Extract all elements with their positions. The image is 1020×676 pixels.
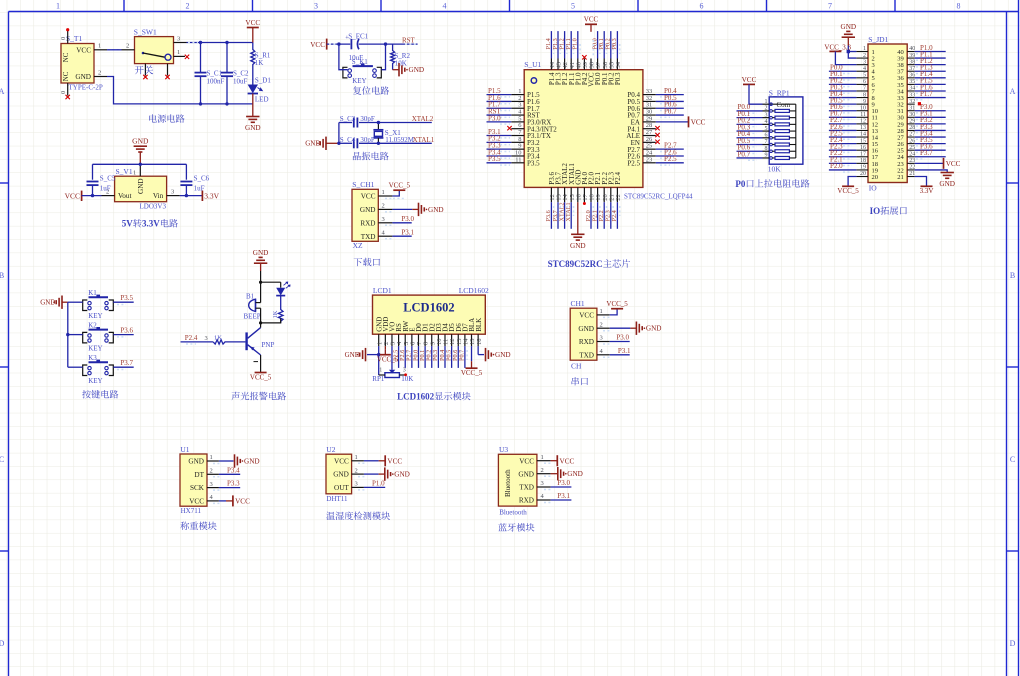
wire U2.2 to GND <box>364 473 379 475</box>
svg-text:29: 29 <box>909 119 915 125</box>
svg-text:1K: 1K <box>214 334 222 341</box>
S_JD1 left pin 4 <box>856 70 868 72</box>
svg-text:GND: GND <box>495 351 511 359</box>
svg-text:GND: GND <box>345 351 360 359</box>
svg-text:K2: K2 <box>88 322 97 330</box>
wire LCD BLA to VCC_5 <box>471 346 473 361</box>
svg-text:Com: Com <box>777 101 791 109</box>
svg-text:27: 27 <box>909 132 915 138</box>
connector S_CH1 XZ <box>352 189 378 241</box>
svg-text:3.3V: 3.3V <box>142 219 160 229</box>
GND power port (dht11) <box>384 467 386 480</box>
svg-text:S_JD1: S_JD1 <box>868 35 888 44</box>
svg-text:P3.5: P3.5 <box>120 294 133 302</box>
svg-text:LCD1602: LCD1602 <box>459 286 489 295</box>
svg-text:P2.4: P2.4 <box>611 210 618 221</box>
svg-text:17: 17 <box>860 151 866 157</box>
S_SW1 pin 1 unconnected <box>174 55 186 57</box>
svg-text:B: B <box>1010 271 1015 280</box>
svg-text:38: 38 <box>909 59 915 65</box>
svg-text:12: 12 <box>860 119 866 125</box>
svg-text:GND: GND <box>40 299 55 307</box>
svg-text:STC89C52RC: STC89C52RC <box>548 259 603 269</box>
S_CH1 pin 4 <box>378 235 392 237</box>
svg-text:VCC: VCC <box>189 498 204 506</box>
S_JD1 right pin 27 <box>907 136 915 138</box>
wire LCD VO to wiper <box>391 346 393 370</box>
svg-text:30pF: 30pF <box>360 115 375 123</box>
svg-text:1: 1 <box>765 99 768 105</box>
svg-text:VCC: VCC <box>691 118 706 126</box>
wire U3.2 to GND <box>551 473 558 475</box>
LED (alarm) <box>280 282 282 288</box>
svg-text:3: 3 <box>765 112 768 118</box>
svg-text:19: 19 <box>860 165 866 171</box>
wire K2 to P3.6 <box>113 334 133 336</box>
wire CH1.4 P3.1 <box>610 354 630 356</box>
junction crystal top <box>377 121 380 124</box>
keys ground bus <box>67 302 69 367</box>
svg-text:P0: P0 <box>735 179 745 189</box>
title 电源电路 <box>149 114 157 122</box>
resistor 1K (led) <box>278 296 283 323</box>
svg-text:TXD: TXD <box>579 351 594 359</box>
wire GND to node T <box>260 263 262 271</box>
svg-text:GND: GND <box>245 124 261 132</box>
title 温湿度检测模块 <box>326 512 335 520</box>
wire S_CH1.3 P3.0 <box>392 222 411 224</box>
svg-text:34: 34 <box>615 61 622 68</box>
S_JD1 left pin 8 <box>856 97 868 99</box>
S_U1 bottom pin 21 P2.3 <box>610 187 612 202</box>
svg-text:P3.1: P3.1 <box>557 492 570 500</box>
S_RP1 resistor element 6 <box>772 144 775 146</box>
wire LCD pin 12 P0.5 <box>451 346 453 368</box>
svg-text:VCC: VCC <box>334 457 349 465</box>
svg-text:21: 21 <box>909 171 915 177</box>
junction crystal bottom <box>377 142 380 145</box>
svg-text:P3.6: P3.6 <box>120 327 133 335</box>
svg-text:5: 5 <box>863 73 866 79</box>
svg-text:RST: RST <box>402 36 416 44</box>
svg-text:S_CH1: S_CH1 <box>352 180 374 189</box>
svg-text:13: 13 <box>860 125 866 131</box>
S_U1 top pin 42 P1.2 <box>564 59 566 70</box>
S_RP1 pin 6 <box>763 137 770 139</box>
wire P0.2 to S_RP1 pin 4 <box>737 123 763 125</box>
S_U1 right pin 27 ALE <box>643 135 656 137</box>
svg-text:GND: GND <box>137 178 145 194</box>
wire P1.2 to S_JD1.38 <box>915 64 946 66</box>
wire P2.5 to S_JD1.14 <box>829 136 857 138</box>
svg-text:11: 11 <box>860 112 866 118</box>
S_V1 pin 1 GND stub <box>139 164 141 176</box>
svg-text:P3.7: P3.7 <box>920 149 933 157</box>
VCC power port (io right) <box>943 158 945 169</box>
S_U1 bottom pin 14 XTAL2 <box>564 187 566 202</box>
wire XTAL2 rail <box>339 122 352 124</box>
svg-text:DT: DT <box>194 471 204 479</box>
S_U1 left pin 4 RST <box>511 114 524 116</box>
title 串口 <box>572 377 579 385</box>
wire P3.2 to S_JD1.29 <box>915 123 946 125</box>
switch S_SW1 <box>135 37 174 64</box>
svg-text:1: 1 <box>210 454 213 461</box>
S_U1 right pin 29 EA <box>643 121 656 123</box>
S_SW1 switch symbol <box>142 52 145 55</box>
svg-text:VCC: VCC <box>310 41 325 49</box>
svg-text:C: C <box>1010 455 1015 464</box>
CH1 pin 4 <box>597 354 610 356</box>
wire P0.5 to S_JD1.9 <box>829 103 857 105</box>
wire U2.1 to VCC <box>364 460 379 462</box>
S_JD1 left pin 9 <box>856 103 868 105</box>
svg-text:C: C <box>0 455 4 464</box>
S_U1 top pin 41 P1.1 <box>570 59 572 70</box>
S_JD1 left pin 12 <box>856 123 868 125</box>
svg-text:A: A <box>1010 87 1016 96</box>
wire P0.6 to S_JD1.10 <box>829 110 857 112</box>
svg-text:1K: 1K <box>272 310 279 318</box>
S_JD1 right pin 25 <box>907 149 915 151</box>
capacitor S_C5 1uF <box>92 164 94 179</box>
svg-text:3: 3 <box>403 367 406 373</box>
S_U1 right pin 23 P2.5 <box>643 162 656 164</box>
svg-text:2: 2 <box>863 53 866 59</box>
S_U1 left pin 7 P3.1/TX <box>511 135 524 137</box>
svg-text:VCC: VCC <box>584 16 599 24</box>
wire bus to K1 <box>68 301 83 303</box>
svg-text:KEY: KEY <box>88 344 102 352</box>
GND power port (lcd left) <box>365 348 367 361</box>
svg-text:34: 34 <box>909 86 915 92</box>
svg-text:A: A <box>0 87 5 96</box>
svg-text:NC: NC <box>62 52 70 62</box>
svg-text:RP1: RP1 <box>372 375 385 383</box>
wire P1.5 to S_JD1.35 <box>915 83 946 85</box>
svg-text:31: 31 <box>909 105 915 111</box>
S_JD1 left pin 1 <box>856 51 868 53</box>
wire K1 right to rail <box>382 44 386 70</box>
svg-text:22: 22 <box>615 194 622 201</box>
svg-text:D: D <box>1010 639 1016 648</box>
wire CH1.1 to VCC_5 <box>610 309 617 315</box>
svg-text:P2.5: P2.5 <box>627 159 640 167</box>
S_U1 right pin 31 P0.6 <box>643 107 656 109</box>
svg-text:20: 20 <box>872 174 879 181</box>
svg-text:7: 7 <box>863 86 866 92</box>
U3 pin 4 <box>537 499 551 501</box>
wire T to B1.1 <box>260 282 262 302</box>
svg-text:15: 15 <box>860 138 866 144</box>
transistor PNP <box>245 332 247 350</box>
svg-text:P3.0: P3.0 <box>401 215 414 223</box>
svg-text:S_T1: S_T1 <box>66 34 83 43</box>
svg-text:VCC: VCC <box>76 46 91 54</box>
svg-text:XTAL2: XTAL2 <box>412 115 434 123</box>
svg-text:P3.4: P3.4 <box>227 466 240 474</box>
GND power port (lcd right) <box>485 348 487 361</box>
svg-text:3.3V: 3.3V <box>204 191 219 200</box>
svg-text:3: 3 <box>210 481 213 488</box>
S_CH1 pin 1 <box>378 195 392 197</box>
connector CH1 CH <box>570 308 597 360</box>
svg-text:2: 2 <box>541 467 544 474</box>
S_U1 left pin 6 P4.3/INT2 <box>511 128 524 130</box>
wire cap top rail <box>93 163 187 165</box>
U1 pin 3 <box>207 487 219 489</box>
svg-text:CH: CH <box>571 362 582 371</box>
svg-text:35: 35 <box>909 79 915 85</box>
wire LCD pin 8 P0.1 <box>424 346 426 368</box>
wire U3.4 P3.1 <box>551 499 572 501</box>
svg-text:1K: 1K <box>255 59 264 67</box>
S_JD1 right pin 31 <box>907 110 915 112</box>
svg-text:S_SW1: S_SW1 <box>134 27 157 36</box>
capacitor S_C6 1uF <box>185 164 187 179</box>
svg-text:10: 10 <box>860 105 866 111</box>
wire XTAL1 rail <box>339 142 352 144</box>
svg-text:LDO3V3: LDO3V3 <box>140 203 167 211</box>
S_U1 bottom pin 19 P2.1 <box>597 187 599 202</box>
svg-text:LED: LED <box>255 96 269 104</box>
svg-text:28: 28 <box>909 125 915 131</box>
S_T1 pin 2 GND <box>94 76 107 78</box>
S_SW1 pin 2 <box>122 49 135 51</box>
S_RP1 resistor element 4 <box>772 130 775 132</box>
S_JD1 right pin 24 <box>907 156 915 158</box>
S_JD1 left pin 17 <box>856 156 868 158</box>
svg-text:3: 3 <box>355 481 358 488</box>
svg-text:VCC_5: VCC_5 <box>389 182 411 190</box>
wire LCD pin 4 P2.5 <box>398 346 400 368</box>
svg-text:P3.0: P3.0 <box>488 114 501 122</box>
svg-text:10K: 10K <box>395 59 407 67</box>
S_RP1 resistor element 1 <box>772 110 775 112</box>
S_RP1 resistor element 7 <box>772 150 775 152</box>
wire LCD pin 14 P0.7 <box>464 346 466 368</box>
svg-text:1: 1 <box>600 308 603 315</box>
B1 pin 1 <box>256 302 261 304</box>
svg-text:39: 39 <box>909 53 915 59</box>
wire VCC to RST rail <box>327 43 351 45</box>
LED S_D1 <box>248 85 258 94</box>
wire P1.3 to S_JD1.37 <box>915 70 946 72</box>
wire S_CH1.2 to GND <box>392 208 412 210</box>
svg-text:GND: GND <box>253 249 269 257</box>
svg-text:S_C5: S_C5 <box>100 175 116 183</box>
svg-text:VCC_5: VCC_5 <box>461 369 483 377</box>
S_JD1 left pin 2 <box>856 57 868 59</box>
svg-text:16: 16 <box>476 338 483 345</box>
wire U3.1 to VCC <box>551 460 558 462</box>
S_RP1 com bus <box>769 103 796 105</box>
S_RP1 pin 3 <box>763 117 770 119</box>
junction left <box>337 42 340 45</box>
U1 pin 2 <box>207 473 219 475</box>
wire P1.4 to S_JD1.36 <box>915 77 946 79</box>
svg-text:GND: GND <box>428 206 444 214</box>
svg-text:P2.5: P2.5 <box>664 155 677 163</box>
wire S_T1.1 to S_SW1.2 <box>108 49 120 51</box>
S_U1 left pin 5 P3.0/RX <box>511 121 524 123</box>
svg-text:8: 8 <box>957 2 961 11</box>
svg-text:3: 3 <box>863 59 866 65</box>
S_JD1 right pin 22 <box>907 169 915 171</box>
svg-text:1: 1 <box>98 43 101 50</box>
svg-text:P3.0: P3.0 <box>557 479 570 487</box>
S_SW1 bottom stubs unconnected <box>144 64 146 76</box>
S_U1 left pin 3 P1.7 <box>511 107 524 109</box>
S_RP1 pin 7 <box>763 144 770 146</box>
svg-text:P3.3: P3.3 <box>227 480 240 488</box>
VCC power port (dht11) <box>384 455 386 466</box>
S_U1 top pin 38 VCC <box>590 59 592 70</box>
S_JD1 left pin 14 <box>856 136 868 138</box>
S_U1 left pin 2 P1.6 <box>511 100 524 102</box>
3.3V power port (io) <box>921 185 933 187</box>
S_JD1 left pin 5 <box>856 77 868 79</box>
svg-text:GND: GND <box>570 242 586 250</box>
S_JD1 left pin 6 <box>856 83 868 85</box>
svg-text:U2: U2 <box>326 445 335 454</box>
svg-text:P3.1: P3.1 <box>401 228 414 236</box>
wire bus to K2 <box>68 334 83 336</box>
S_CH1 pin 3 <box>378 222 392 224</box>
wire P0.3 to S_RP1 pin 5 <box>737 130 763 132</box>
svg-text:9: 9 <box>765 153 768 159</box>
S_RP1 pin 9 <box>763 157 770 159</box>
wire P0.2 to S_JD1.6 <box>829 83 857 85</box>
svg-text:7: 7 <box>828 2 832 11</box>
svg-text:10uF: 10uF <box>233 78 248 86</box>
wire P3.0 to S_JD1.31 <box>915 110 946 112</box>
S_JD1 left pin 7 <box>856 90 868 92</box>
title 复位电路 <box>353 86 361 94</box>
title 晶振电路 <box>353 152 361 160</box>
S_U1 top pin 36 P0.1 <box>603 59 605 70</box>
wire P3.7 to S_JD1.24 <box>915 156 946 158</box>
wire S_JD1.22 to GND <box>915 170 948 173</box>
S_U1 bottom pin 18 P2.0 <box>590 187 592 202</box>
wire VCC to RP1 com <box>749 84 763 104</box>
S_JD1 left pin 3 <box>856 64 868 66</box>
wire P2.6 to S_JD1.13 <box>829 129 857 131</box>
svg-text:P3.1: P3.1 <box>618 347 631 355</box>
svg-text:KEY: KEY <box>352 77 366 85</box>
resistor S_R2 10K <box>391 44 395 70</box>
S_U1 top pin 37 P0.0 <box>597 59 599 70</box>
wire LCD pin 6 P2.7 <box>411 346 413 368</box>
wire LCD pin 7 P0.0 <box>417 346 419 368</box>
S_RP1 pin 4 <box>763 123 770 125</box>
GND power port (bt) <box>557 467 559 480</box>
S_JD1 right pin 30 <box>907 116 915 118</box>
GND power port (chip) <box>571 233 584 235</box>
S_JD1 right pin 23 <box>907 162 915 164</box>
wire P0.4 to S_JD1.8 <box>829 97 857 99</box>
S_V1 pin 3 <box>167 195 180 197</box>
wire S_JD1.21 to 3.3V <box>915 177 927 187</box>
S_U1 left pin 9 P3.3 <box>511 148 524 150</box>
VCC power port (EA) <box>688 116 690 127</box>
wire LCD pin 11 P0.4 <box>444 346 446 368</box>
electrolytic capacitor S_EC1 10uF <box>350 39 352 49</box>
svg-text:S_D1: S_D1 <box>255 77 271 85</box>
U1 pin 1 <box>207 460 219 462</box>
svg-text:1: 1 <box>382 189 385 196</box>
wire P2.3 to S_JD1.16 <box>829 149 857 151</box>
IC S_U1 STC89C52RC <box>524 70 643 188</box>
svg-text:18: 18 <box>860 158 866 164</box>
S_JD1 right pin 32 <box>907 103 915 105</box>
svg-text:1: 1 <box>133 170 136 177</box>
svg-text:GND: GND <box>75 73 91 81</box>
svg-text:GND: GND <box>360 206 376 214</box>
S_JD1 left pin 19 <box>856 169 868 171</box>
svg-text:P0.7: P0.7 <box>459 350 466 361</box>
wire crystal left vertical <box>338 123 340 144</box>
S_JD1 right pin 38 <box>907 64 915 66</box>
junction ldo gnd <box>139 163 142 166</box>
svg-text:TXD: TXD <box>519 484 534 492</box>
svg-text:GND: GND <box>578 325 594 333</box>
S_U1 right pin 24 P2.6 <box>643 155 656 157</box>
svg-text:K1: K1 <box>88 289 97 297</box>
S_U1 bottom pin 12 P3.6 <box>550 187 552 202</box>
S_U1 bottom pin 17 P4.0 no-connect <box>583 202 586 205</box>
S_U1 top pin 34 P0.3 <box>616 59 618 70</box>
svg-text:3: 3 <box>541 480 544 487</box>
S_JD1 right pin 26 <box>907 143 915 145</box>
S_RP1 resistor element 2 <box>772 117 775 119</box>
wire P1.0 to S_JD1.40 <box>915 51 946 53</box>
wire P2.2 to S_JD1.17 <box>829 156 857 158</box>
wire P0.7 to S_RP1 pin 9 <box>737 157 763 159</box>
wire VCC to Vout pin <box>82 195 102 197</box>
svg-text:VCC: VCC <box>387 457 402 465</box>
wire P3.4 to S_JD1.27 <box>915 136 946 138</box>
svg-text:S_C1: S_C1 <box>207 70 223 78</box>
wire P1.1 to S_JD1.39 <box>915 57 946 59</box>
wire gnd to potentiometer <box>378 355 380 375</box>
svg-text:KEY: KEY <box>88 312 102 320</box>
resistor network S_RP1 10K <box>769 97 803 164</box>
wire VCC_3.3 to S_JD1.3 <box>835 51 856 64</box>
svg-text:VCC_3.3: VCC_3.3 <box>824 43 851 51</box>
svg-text:VCC: VCC <box>560 457 575 465</box>
svg-text:LCD1602: LCD1602 <box>403 300 454 314</box>
CH1 pin 1 <box>597 314 610 316</box>
svg-text:TYPE-C-2P: TYPE-C-2P <box>69 84 103 92</box>
junction at C1 top <box>199 41 202 44</box>
U3 pin 1 <box>537 460 551 462</box>
U2 pin 1 <box>352 460 364 462</box>
S_JD1 left pin 11 <box>856 116 868 118</box>
wire emitter to VCC_5 <box>260 355 262 373</box>
S_U1 right pin 32 P0.5 <box>643 100 656 102</box>
svg-text:2: 2 <box>600 321 603 328</box>
svg-text:RXD: RXD <box>360 219 375 227</box>
svg-text:2: 2 <box>382 203 385 210</box>
svg-text:1: 1 <box>863 46 866 52</box>
junction at C2 bottom <box>225 102 228 105</box>
svg-text:4: 4 <box>443 2 447 11</box>
svg-text:30pF: 30pF <box>360 136 375 144</box>
wire K3 to P3.7 <box>113 366 133 368</box>
svg-text:LCD1602: LCD1602 <box>397 392 435 402</box>
junction alarm top <box>259 281 262 284</box>
